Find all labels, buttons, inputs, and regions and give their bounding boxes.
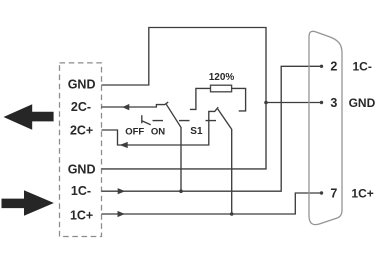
svg-text:1C-: 1C- [353,60,372,74]
svg-text:120%: 120% [209,72,235,83]
switch S1 mechanical linkage dashed line [153,120,225,122]
big arrow pointing left (outgoing bus) [4,104,54,130]
svg-text:7: 7 [330,186,337,200]
terminal block dashed box [60,63,102,237]
svg-text:GND: GND [349,96,376,110]
junction node 1C- / pole 1 pivot [179,189,183,193]
arrowhead on 2C+ wire pointing left [120,142,128,148]
switch S1 actuator slant link [142,121,151,125]
svg-text:S1: S1 [190,126,203,137]
arrowhead on 1C+ wire pointing right [118,211,125,217]
svg-text:GND: GND [68,163,96,177]
arrowhead on 1C- wire pointing right [118,188,126,194]
svg-text:2C+: 2C+ [70,124,93,138]
wire 1C- terminal right, up to pin 2 [102,66,322,191]
svg-text:1C+: 1C+ [351,186,373,200]
resistor left lead to open contact of pole 1 [190,88,211,109]
junction node 1C+ / pole 2 pivot [230,212,234,216]
wire pin3 line: GND node to pin 3 [266,102,322,104]
pin 2 dot [320,65,323,68]
svg-text:1C+: 1C+ [70,208,93,222]
svg-text:1C-: 1C- [71,184,91,198]
svg-text:2: 2 [330,60,337,74]
wire 2C+ terminal down and right to switch pole 2 contact [102,107,219,145]
wire 1C+ terminal right, up to pin 7 [102,193,322,214]
svg-text:OFF: OFF [125,126,144,137]
resistor right lead to open contact of pole 2 [232,88,246,111]
D-SUB connector outline [309,31,342,224]
resistor R1 120% body [211,85,232,92]
svg-text:GND: GND [68,78,96,92]
junction node GND at pin3 column [264,101,268,105]
wire GND net: GND1 terminal right, up, across top, down to pin3 node, down and left to GND2 terminal [102,28,267,169]
switch S1 actuator bar [141,115,143,123]
pin 3 dot [320,101,323,104]
big arrow pointing right (incoming bus) [2,190,54,215]
pin 7 dot [320,191,323,194]
switch S1 pole 2 blade and pivot wire to 1C+ net [218,109,232,214]
arrowhead on 2C- wire pointing left [122,104,129,110]
svg-text:2C-: 2C- [71,100,91,114]
switch S1 pole 1 blade and pivot wire to 1C- net [166,104,181,191]
wire 2C- terminal to switch pole 1 contact [102,102,169,107]
svg-text:3: 3 [330,96,337,110]
svg-text:ON: ON [151,126,165,137]
